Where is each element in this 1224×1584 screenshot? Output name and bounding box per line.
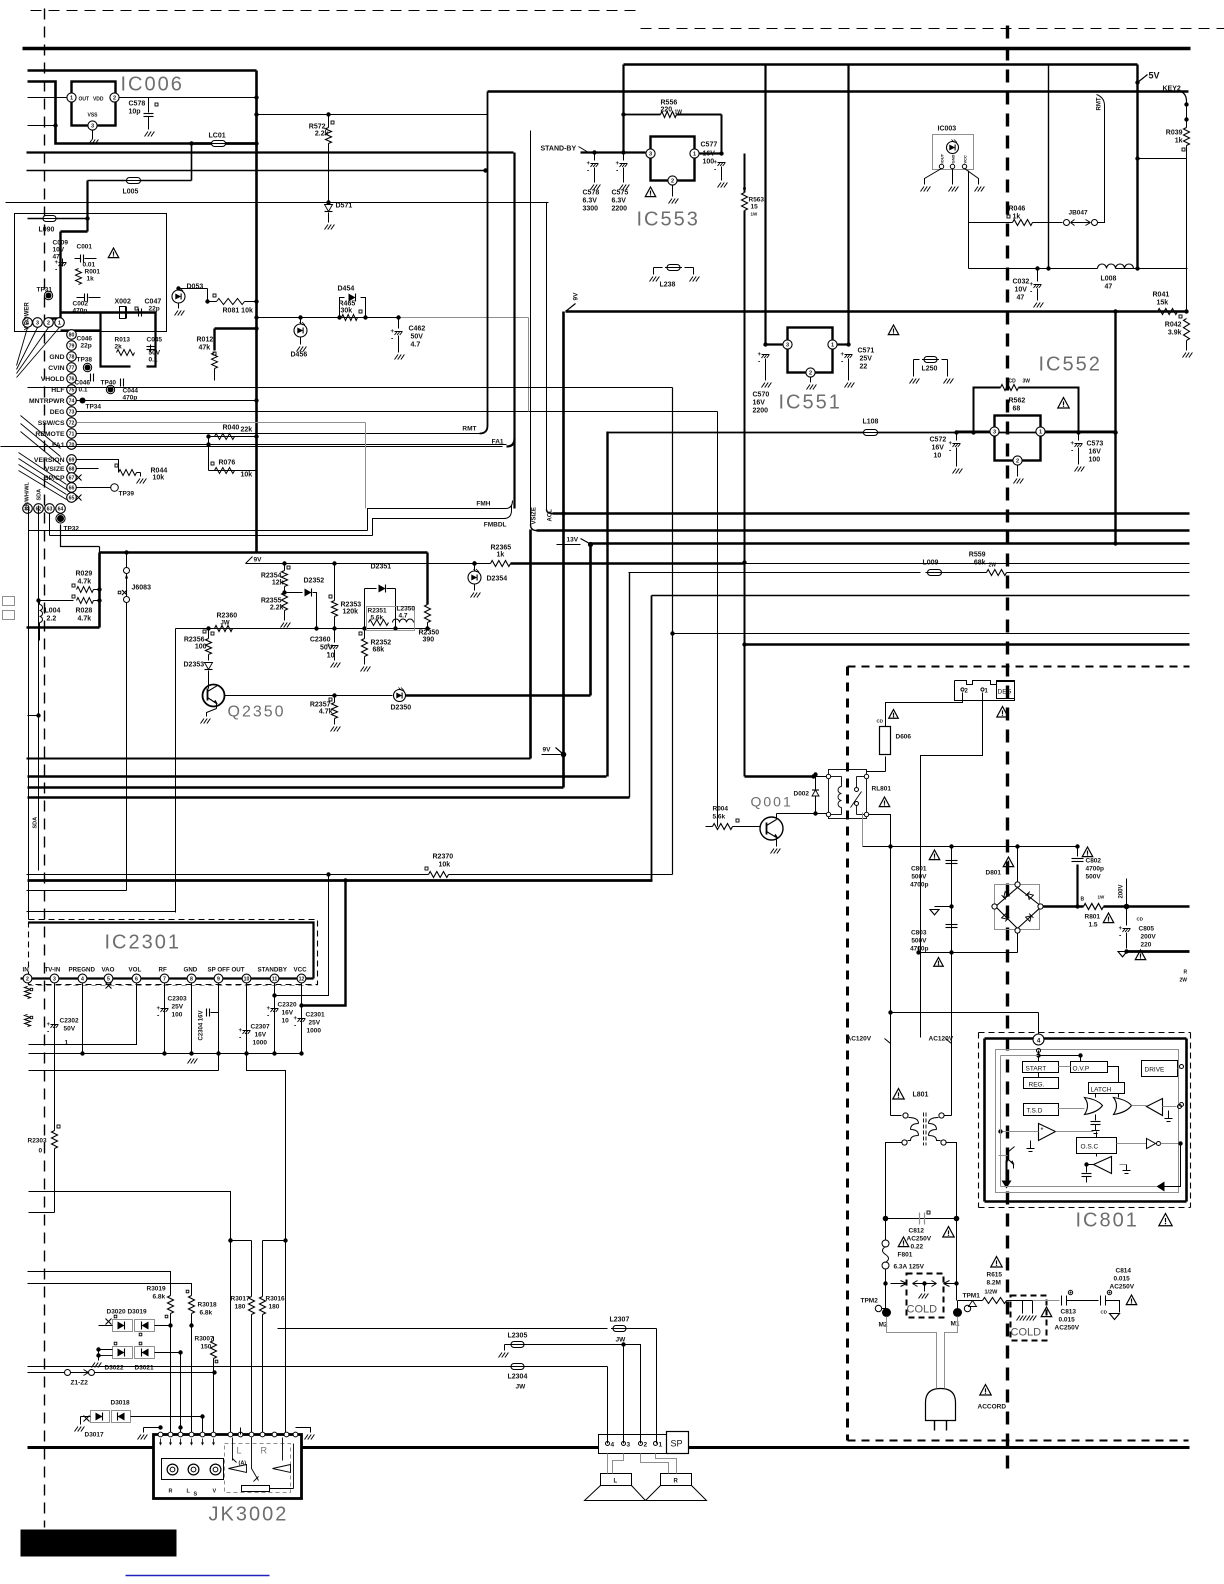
svg-text:71: 71: [69, 432, 75, 438]
svg-text:2200: 2200: [753, 408, 769, 415]
inductor L001: [192, 142, 257, 145]
svg-text:16V: 16V: [282, 1010, 294, 1017]
svg-text:2.2k: 2.2k: [270, 605, 284, 612]
svg-text:1: 1: [58, 321, 61, 327]
wire y530 nested: [29, 530, 368, 532]
svg-text:4: 4: [1037, 1038, 1041, 1045]
svg-text:MNTRPWR: MNTRPWR: [29, 398, 65, 405]
capacitor C046b 0.1: [90, 374, 92, 382]
svg-text:D454: D454: [338, 286, 355, 293]
wire x629: [629, 573, 631, 798]
svg-text:3: 3: [91, 124, 94, 130]
IC552 pin2: [1013, 456, 1022, 465]
svg-text:10: 10: [282, 1018, 290, 1025]
voltage regulator IC552 box: [995, 416, 1041, 461]
wire x957: [956, 1284, 958, 1301]
svg-text:D801: D801: [986, 870, 1002, 877]
wire y797 thick: [28, 796, 630, 798]
pin 1 of IC006: [67, 93, 76, 102]
IC2301 pin bus: [21, 977, 314, 979]
wire pin4 feed from AC line: [891, 1012, 1039, 1014]
wire inner bottom: [1000, 1132, 1002, 1187]
svg-text:500V: 500V: [911, 938, 927, 945]
svg-text:C801: C801: [911, 866, 927, 873]
IC552 pin3: [990, 427, 999, 436]
capacitor C801 500V 4700p: [946, 860, 958, 862]
diode D2353: [208, 655, 210, 661]
resistor R801 1.5: [1084, 904, 1104, 910]
svg-text:IC801: IC801: [1076, 1210, 1139, 1232]
svg-text:10: 10: [327, 653, 335, 660]
warning R615: [991, 1257, 1002, 1268]
svg-text:+: +: [1041, 1127, 1044, 1133]
svg-text:78: 78: [69, 355, 75, 361]
svg-text:L: L: [237, 1446, 242, 1456]
wire tsd to gate: [1058, 1108, 1085, 1110]
svg-text:R3019: R3019: [147, 1286, 167, 1293]
wire pin3 left: [957, 431, 990, 433]
svg-text:C032: C032: [1013, 279, 1030, 286]
warning IC801: [1159, 1214, 1172, 1226]
connector bottom row pins 61-64: [23, 504, 33, 514]
wire RMT vertical x487: [487, 92, 489, 426]
svg-text:JW: JW: [221, 621, 230, 627]
inductor L2305: [504, 1345, 506, 1351]
svg-text:0.01: 0.01: [83, 262, 96, 269]
wire x656 down: [656, 1329, 658, 1444]
svg-text:L008: L008: [1101, 276, 1117, 283]
svg-text:IN: IN: [23, 967, 30, 974]
svg-text:L090: L090: [39, 227, 55, 234]
svg-text:73: 73: [69, 410, 75, 416]
wire thick bottom bus left: [28, 1446, 154, 1449]
IC553 pin3: [646, 149, 655, 158]
svg-text:4.7k: 4.7k: [78, 579, 92, 586]
9V label at x563: [542, 754, 561, 756]
svg-text:CD: CD: [1101, 1310, 1108, 1315]
svg-text:FMBDL: FMBDL: [484, 522, 507, 529]
svg-text:TV-IN: TV-IN: [45, 967, 61, 974]
jumper Z1-Z2: [28, 1372, 65, 1374]
warning F801: [898, 1237, 908, 1247]
svg-text:R2357: R2357: [310, 702, 331, 709]
svg-text:D3022: D3022: [105, 1365, 125, 1372]
connector fan lines lower: [19, 453, 67, 485]
svg-text:AC120V: AC120V: [929, 1036, 954, 1043]
IC801 solid thick box: [985, 1037, 1187, 1040]
audio jack JK3002 box: [154, 1435, 302, 1499]
speaker L: [601, 1474, 632, 1486]
svg-text:+: +: [294, 1016, 298, 1022]
svg-text:M1: M1: [951, 1321, 960, 1328]
svg-text:R004: R004: [713, 806, 729, 813]
wire D053 node: [179, 288, 208, 290]
capacitor C570 16V 2200: [762, 354, 770, 356]
JK3002 left ground: [144, 1427, 161, 1429]
svg-text:TPM1: TPM1: [963, 1293, 981, 1300]
wire pin11 down: [274, 984, 276, 1054]
svg-text:R556: R556: [661, 100, 678, 107]
COLD box 1: [907, 1274, 944, 1318]
power isolation dashed box: [848, 666, 1190, 668]
svg-text:9V: 9V: [573, 292, 580, 301]
wire y513 thick: [553, 512, 1190, 515]
IC551 pin3: [783, 340, 792, 349]
pin 4 circled: [1033, 1034, 1044, 1045]
capacitor C571 25V 22: [845, 354, 853, 356]
diode D571: [326, 200, 330, 204]
wire y1212 stub: [29, 1212, 55, 1214]
svg-text:5V: 5V: [1149, 71, 1160, 81]
wire bus y1053: [29, 1053, 302, 1055]
svg-text:C577: C577: [701, 142, 718, 149]
svg-text:O.V.P: O.V.P: [1073, 1066, 1090, 1073]
wire x99 thick down: [98, 553, 101, 628]
svg-text:R076: R076: [219, 460, 236, 467]
svg-text:F801: F801: [898, 1252, 913, 1259]
svg-text:D2352: D2352: [304, 578, 325, 585]
svg-text:5: 5: [107, 977, 110, 983]
resistor bar inside jack: [242, 1486, 270, 1492]
svg-text:LC01: LC01: [209, 133, 226, 140]
svg-text:TP39: TP39: [119, 491, 135, 498]
svg-text:AC250V: AC250V: [1110, 1284, 1135, 1291]
IC552 pin1: [1036, 427, 1045, 436]
svg-text:IC006: IC006: [121, 74, 184, 96]
wire thick bottom bus right: [689, 1446, 1190, 1449]
svg-text:22p: 22p: [149, 306, 160, 313]
wire y268 node line: [969, 268, 1098, 270]
capacitor C2302 50V 1: [51, 1024, 59, 1026]
wire x607 down: [607, 1367, 609, 1444]
svg-text:STAND-BY: STAND-BY: [541, 146, 577, 153]
svg-text:C2360: C2360: [310, 637, 331, 644]
svg-text:R: R: [674, 1479, 679, 1485]
svg-text:4: 4: [611, 1442, 615, 1449]
test point TP31: [46, 293, 52, 299]
svg-text:10k: 10k: [241, 472, 253, 479]
svg-text:O.S.C: O.S.C: [1081, 1144, 1099, 1151]
svg-text:C001: C001: [77, 244, 93, 251]
svg-text:3: 3: [627, 1442, 631, 1449]
connector corner pins 1-4: [23, 318, 33, 328]
svg-text:7: 7: [163, 977, 166, 983]
svg-text:16V: 16V: [1089, 449, 1102, 456]
warning near relay: [879, 797, 889, 807]
svg-text:L2307: L2307: [610, 1317, 630, 1324]
wire y1240 nodes: [231, 1240, 252, 1242]
transistor Q2350: [203, 685, 225, 707]
svg-text:10p: 10p: [129, 109, 141, 116]
wire y787 thick: [28, 786, 564, 789]
svg-text:TPM2: TPM2: [861, 1298, 879, 1305]
or gate 1: [1085, 1098, 1103, 1115]
svg-text:R2370: R2370: [433, 854, 454, 861]
svg-text:SP: SP: [671, 1439, 683, 1449]
wire x175 down: [175, 629, 177, 913]
pin 2 of IC006: [110, 93, 119, 102]
svg-text:JB047: JB047: [1069, 210, 1089, 217]
svg-text:16V: 16V: [703, 151, 716, 158]
svg-text:1: 1: [1039, 430, 1042, 436]
resistor R046 1k: [969, 222, 1013, 224]
svg-text:VSS: VSS: [87, 113, 98, 119]
resistor R2356 100: [208, 629, 210, 639]
wire ACL vertical: [546, 203, 548, 510]
wire x744 lower: [742, 560, 746, 564]
svg-text:+: +: [1119, 926, 1123, 932]
wire latch to gates: [1095, 1094, 1097, 1098]
capacitor C572 16V 10: [956, 433, 958, 441]
svg-text:TP38: TP38: [77, 357, 93, 364]
wire x365 gray stub: [365, 423, 367, 509]
resistor R465 30k: [342, 315, 358, 321]
svg-text:DEG: DEG: [50, 409, 65, 416]
IC552 pin2 ground: [1017, 466, 1019, 477]
svg-text:470p: 470p: [73, 308, 88, 315]
svg-text:500V: 500V: [1086, 874, 1102, 881]
svg-text:10: 10: [244, 977, 250, 983]
warning triangle IC553: [645, 187, 655, 197]
capacitor C047 22p: [138, 309, 140, 317]
svg-text:5.6k: 5.6k: [713, 814, 726, 821]
wire y170 bus: [27, 170, 486, 172]
svg-text:4: 4: [81, 977, 84, 983]
wire y952: [919, 952, 1018, 954]
svg-text:C044: C044: [123, 388, 139, 395]
IC553 pin2: [668, 176, 677, 185]
wire secondary left: [886, 1143, 902, 1219]
wire x672: [672, 388, 674, 875]
svg-text:S: S: [194, 1492, 198, 1498]
wire pin6 down: [29, 984, 137, 1045]
svg-text:R2303: R2303: [28, 1138, 48, 1145]
inductor L009: [928, 570, 942, 576]
wire ovp latch: [1059, 1066, 1071, 1068]
svg-text:IC003: IC003: [938, 126, 957, 133]
wire y627 thick left: [27, 626, 100, 629]
svg-text:C814: C814: [1116, 1268, 1132, 1275]
chassis tri C801: [949, 904, 953, 908]
svg-text:+: +: [841, 352, 845, 358]
wire D606 to relay corner: [885, 757, 887, 772]
resistor R3018 6.8k: [189, 1296, 195, 1314]
JK3002 top pins: [158, 1432, 163, 1437]
svg-text:D2350: D2350: [391, 705, 412, 712]
svg-text:C812: C812: [909, 1228, 925, 1235]
wire pin4 down: [82, 984, 84, 1054]
svg-text:JK3002: JK3002: [209, 1504, 289, 1526]
resistor R076 10k: [209, 470, 257, 472]
resistor R562 68: [974, 388, 1001, 432]
svg-text:47k: 47k: [199, 345, 211, 352]
resistor R615 8.2M 1/2W: [958, 1300, 983, 1302]
svg-text:JW: JW: [516, 1384, 527, 1391]
capacitor C812 AC250V 0.22: [886, 1218, 957, 1220]
resistor R004 5.6k: [706, 826, 713, 828]
relay RL801: [829, 770, 867, 819]
wire D2350 thick out: [406, 694, 591, 697]
voltage regulator IC553 box: [651, 137, 695, 181]
wire pin68 lead: [77, 468, 99, 470]
warning C803: [934, 958, 944, 967]
svg-text:R: R: [1184, 970, 1188, 976]
svg-text:PREGND: PREGND: [69, 967, 96, 974]
resistor R028 4.7k: [39, 600, 74, 602]
svg-text:150: 150: [201, 1344, 212, 1351]
wire thick bottom bus mid: [302, 1446, 599, 1449]
svg-text:R2365: R2365: [491, 545, 512, 552]
5V node: [1136, 65, 1138, 268]
IC003 pin grounds: [925, 169, 942, 185]
svg-text:72: 72: [69, 421, 75, 427]
resistor R2353 120k: [332, 601, 338, 617]
svg-text:6.8k: 6.8k: [153, 1294, 166, 1301]
wire thick q2350 top y552: [99, 547, 101, 553]
svg-text:1W: 1W: [675, 110, 683, 116]
svg-text:VCC: VCC: [963, 155, 968, 164]
9V label top: [566, 304, 576, 312]
resistor R2351 5.6k in box: [367, 607, 415, 631]
svg-text:10V: 10V: [53, 247, 65, 254]
svg-text:SDA: SDA: [33, 817, 39, 829]
page border dashed top-right: [641, 28, 1224, 30]
inner box right pins: [1180, 1065, 1184, 1069]
svg-text:25V: 25V: [172, 1004, 184, 1011]
warning D801: [1003, 857, 1013, 867]
wire x918 hook: [918, 947, 920, 953]
svg-text:R2360: R2360: [217, 613, 238, 620]
svg-text:C047: C047: [145, 299, 162, 306]
inductor L2350 4.7: [393, 619, 414, 623]
wire y158: [1138, 158, 1187, 160]
svg-text:R012: R012: [197, 337, 214, 344]
wire pin70 FA1 lead: [77, 444, 507, 446]
svg-text:R2356: R2356: [184, 637, 205, 644]
resistor R040 22k: [209, 436, 257, 438]
svg-text:C575: C575: [612, 190, 629, 197]
svg-text:80: 80: [69, 333, 75, 339]
svg-text:R3018: R3018: [198, 1302, 218, 1309]
svg-text:GND: GND: [951, 155, 956, 164]
wire y628 row: [209, 628, 431, 630]
svg-text:D2354: D2354: [487, 576, 508, 583]
wire pin3 left: [766, 343, 783, 345]
svg-text:C2304 16V: C2304 16V: [199, 1010, 205, 1040]
warning C801: [929, 850, 939, 860]
block LATCH: [1089, 1083, 1125, 1094]
svg-text:0.015: 0.015: [1114, 1276, 1131, 1283]
capacitor C805 200V 220: [1126, 907, 1128, 926]
svg-text:10k: 10k: [439, 862, 451, 869]
warning near D606: [889, 710, 899, 719]
wire x623 vertical: [622, 65, 624, 153]
svg-text:R3017: R3017: [231, 1296, 251, 1303]
svg-text:R: R: [169, 1489, 173, 1495]
svg-text:T.S.D: T.S.D: [1027, 1108, 1043, 1115]
svg-text:L2350: L2350: [397, 606, 416, 613]
connector DEG: [955, 681, 1015, 701]
svg-text:16V: 16V: [753, 400, 766, 407]
svg-text:C570: C570: [753, 392, 770, 399]
wire AC120V left vertical: [890, 847, 892, 1116]
resistor R2352 68k: [364, 629, 366, 639]
capacitor C002 470p: [84, 294, 86, 302]
warning L801: [893, 1089, 904, 1100]
wire x623 down: [623, 1345, 625, 1444]
svg-text:68: 68: [1013, 406, 1021, 413]
svg-text:CD: CD: [877, 719, 884, 724]
wire thick y774 to relay: [813, 772, 817, 776]
svg-text:J6083: J6083: [132, 585, 152, 592]
svg-text:74: 74: [69, 399, 75, 405]
test point TP39: [77, 487, 111, 489]
svg-text:R029: R029: [76, 571, 93, 578]
svg-text:D2351: D2351: [371, 564, 392, 571]
svg-text:FA1: FA1: [492, 439, 504, 446]
svg-text:SSW/CS: SSW/CS: [38, 420, 65, 427]
inductor L108: [864, 430, 878, 436]
voltage regulator IC551 box: [788, 328, 833, 373]
svg-text:R028: R028: [76, 608, 93, 615]
svg-text:D002: D002: [794, 791, 810, 798]
svg-text:22: 22: [860, 364, 868, 371]
svg-text:RF: RF: [159, 967, 167, 974]
terminal M2: [882, 1308, 891, 1317]
svg-text:2200: 2200: [612, 206, 628, 213]
svg-text:R001: R001: [85, 269, 101, 276]
wire to C813: [1033, 1300, 1060, 1302]
svg-text:2: 2: [113, 96, 116, 102]
wire y543 thick: [591, 542, 1190, 545]
svg-text:COLD: COLD: [1011, 1327, 1042, 1339]
bottom right arrow gnd: [1165, 1144, 1181, 1187]
wire y776 thick: [28, 775, 607, 778]
ground at bus: [188, 1059, 192, 1064]
svg-text:1k: 1k: [1013, 214, 1021, 221]
JK3002 pin dots: [158, 1425, 162, 1429]
wire x717 DEG net: [717, 412, 719, 827]
diode D454: [337, 315, 341, 319]
svg-text:9V: 9V: [543, 747, 552, 754]
connector fan lines upper: [17, 328, 28, 366]
module box around tuning cluster: [15, 214, 167, 332]
block REG: [1024, 1078, 1059, 1089]
svg-text:16V: 16V: [932, 445, 945, 452]
capacitor C802 4700p 500V: [1077, 847, 1079, 857]
svg-text:65: 65: [69, 496, 75, 502]
svg-text:C2301: C2301: [306, 1012, 326, 1019]
svg-text:GND: GND: [49, 354, 64, 361]
svg-text:R040: R040: [223, 425, 240, 432]
IC801 inner box: [996, 1050, 1179, 1193]
bridge rectifier D801: [995, 885, 1040, 930]
transistor in IC801: [1007, 1150, 1009, 1162]
resistor R2354 12k: [284, 564, 286, 571]
svg-text:+: +: [1071, 441, 1075, 447]
svg-text:100: 100: [195, 644, 207, 651]
svg-text:C805: C805: [1139, 926, 1155, 933]
svg-text:3: 3: [36, 321, 39, 327]
opamp right: [1147, 1099, 1163, 1116]
wire DEG pin2 to D606: [886, 693, 963, 727]
svg-text:Q2350: Q2350: [228, 704, 286, 721]
svg-text:2: 2: [1016, 459, 1019, 465]
resistor R081 10k: [205, 299, 209, 303]
wire pin8 down: [191, 984, 193, 1054]
svg-text:1k: 1k: [87, 276, 95, 283]
svg-text:50V: 50V: [320, 645, 333, 652]
